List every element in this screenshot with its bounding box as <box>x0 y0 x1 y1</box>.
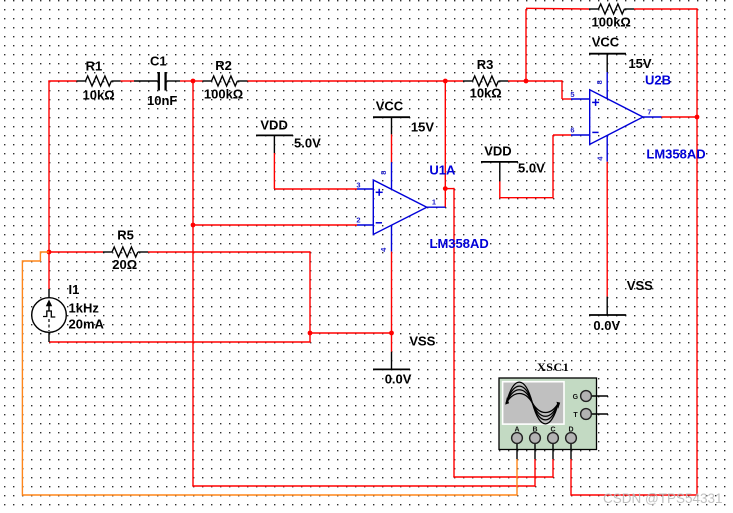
current source I1 <box>32 289 67 342</box>
label XSC1 <box>537 360 569 374</box>
svg-text:15V: 15V <box>411 120 434 135</box>
svg-text:5.0V: 5.0V <box>294 136 321 151</box>
svg-text:1: 1 <box>432 197 436 206</box>
scope terminal label B <box>532 426 537 433</box>
pin number 4 (U2B) <box>596 156 605 161</box>
pin number 1 (U1A) <box>432 197 436 206</box>
svg-text:10kΩ: 10kΩ <box>470 86 502 101</box>
wire I1 bottom to loop <box>49 341 311 343</box>
svg-text:0.0V: 0.0V <box>385 371 412 386</box>
node junction C1/R2 <box>191 79 196 84</box>
wire to U1A pin2 <box>193 224 357 226</box>
resistor R1 <box>77 76 121 86</box>
svg-text:T: T <box>573 412 578 419</box>
wire top-left to R1 <box>48 80 76 82</box>
svg-text:1kHz: 1kHz <box>69 301 100 316</box>
svg-text:5.0V: 5.0V <box>518 160 545 175</box>
svg-text:8: 8 <box>379 171 388 175</box>
value 0.0V (U2B VSS) <box>593 318 620 333</box>
wire R2 to R3 main rail <box>248 80 464 82</box>
svg-text:15V: 15V <box>628 56 651 71</box>
scope terminal label T <box>573 412 578 419</box>
label R5 <box>117 228 134 243</box>
label U2B <box>645 73 671 88</box>
wire VCC to U1A pin8 <box>391 134 393 162</box>
svg-text:7: 7 <box>647 107 651 116</box>
svg-text:100kΩ: 100kΩ <box>592 14 631 29</box>
label LM358AD (U2B) <box>646 146 705 161</box>
svg-text:VCC: VCC <box>376 98 404 113</box>
wire feedback up left <box>525 9 527 81</box>
svg-text:D: D <box>568 426 573 433</box>
wire branch to R5 node <box>310 332 392 334</box>
node junction U1A output rail <box>443 79 448 84</box>
svg-text:VCC: VCC <box>592 34 620 49</box>
wire bottom to scope B <box>192 459 535 487</box>
label VDD (U2B) <box>484 144 511 159</box>
node junction U1A inverting input <box>191 223 196 228</box>
wire feedback down to U2B output <box>696 8 698 117</box>
node junction U1A output branch <box>443 186 448 191</box>
scope connector G <box>581 391 608 402</box>
pin number 7 (U2B) <box>647 107 651 116</box>
svg-text:R1: R1 <box>86 59 103 74</box>
node junction R5 left <box>47 250 52 255</box>
scope connector A <box>512 433 523 459</box>
wire R1 to C1 <box>121 80 135 82</box>
watermark CSDN <box>603 491 723 506</box>
wire U2B output to rail <box>662 116 698 118</box>
svg-text:20Ω: 20Ω <box>112 257 137 272</box>
resistor R5 <box>103 247 148 257</box>
value 5.0V (U2B VDD) <box>518 160 545 175</box>
value 20Ω <box>112 257 137 272</box>
label R3 <box>477 57 494 72</box>
ground VSS (U2B) <box>589 297 626 315</box>
op-amp U1A <box>357 162 445 251</box>
svg-text:LM358AD: LM358AD <box>646 146 705 161</box>
value 10nF <box>147 93 177 108</box>
wire VDD to U2B pin6 <box>499 135 571 198</box>
svg-text:LM358AD: LM358AD <box>430 236 489 251</box>
value 20mA <box>69 317 105 332</box>
label VDD (U1A) <box>260 117 287 132</box>
scope terminal label G <box>573 394 579 401</box>
svg-text:R3: R3 <box>477 57 494 72</box>
svg-text:U2B: U2B <box>645 73 671 88</box>
wire U2B pin4 to VSS <box>606 162 608 297</box>
wire orange probe A from R5 node <box>22 252 517 495</box>
svg-text:R2: R2 <box>215 58 232 73</box>
wire feedback top left segment <box>526 7 589 10</box>
label VCC (U1A) <box>376 98 404 113</box>
value 10kΩ (R3) <box>470 86 502 101</box>
label U1A <box>429 162 456 177</box>
svg-text:2: 2 <box>356 216 360 225</box>
svg-text:10nF: 10nF <box>147 93 177 108</box>
value 15V (U1A VCC) <box>411 120 434 135</box>
value 10kΩ (R1) <box>83 87 115 102</box>
svg-text:B: B <box>532 426 537 433</box>
wire branch to scope C <box>445 188 553 478</box>
svg-text:CSDN @TPS54331: CSDN @TPS54331 <box>603 491 723 506</box>
power VCC supply (U1A) <box>373 117 410 134</box>
pin number 4 (U1A) <box>379 247 388 252</box>
label R1 <box>86 59 103 74</box>
wire R5 right to loop down <box>148 251 310 342</box>
svg-text:8: 8 <box>595 80 604 84</box>
svg-text:10kΩ: 10kΩ <box>83 87 115 102</box>
value 100kΩ (R2) <box>204 87 243 102</box>
svg-text:5: 5 <box>570 90 574 99</box>
svg-text:C: C <box>550 426 555 433</box>
scope connector T <box>581 409 608 420</box>
wire U1A pin4 to VSS <box>391 252 393 352</box>
svg-text:U1A: U1A <box>429 162 456 177</box>
wire left rail from R1 left down to I1 top <box>48 81 50 289</box>
value 0.0V (U1A VSS) <box>385 371 412 386</box>
label VCC (U2B) <box>592 34 620 49</box>
wire C1 node down left rail 2 <box>192 81 194 486</box>
oscilloscope XSC1 <box>499 378 597 450</box>
value 15V (U2B VCC) <box>628 56 651 71</box>
power VDD supply (U1A) <box>256 135 293 153</box>
label I1 <box>69 282 80 297</box>
resistor R2 <box>203 76 248 86</box>
svg-text:A: A <box>514 426 519 433</box>
wire VDD to U1A pin3 <box>274 153 357 189</box>
node junction pin4/VSS branch <box>389 331 394 336</box>
resistor R4 100kΩ feedback <box>589 4 634 14</box>
node junction feedback/R3 <box>524 79 529 84</box>
node junction U2B output <box>695 115 700 120</box>
label VSS (U2B) <box>627 278 653 293</box>
svg-text:VSS: VSS <box>627 278 653 293</box>
svg-text:100kΩ: 100kΩ <box>204 87 243 102</box>
wire R3 to corner and U2B pin5 <box>508 80 571 99</box>
pin number 8 (U2B) <box>595 80 604 84</box>
wire C1 to junction <box>180 80 193 82</box>
svg-text:R5: R5 <box>117 228 134 243</box>
power VDD supply (U2B) <box>481 162 518 182</box>
svg-text:20mA: 20mA <box>69 317 105 332</box>
capacitor C1 <box>134 72 180 91</box>
wire U1A output up to rail <box>444 81 446 207</box>
svg-text:G: G <box>573 394 579 401</box>
svg-text:VDD: VDD <box>484 144 511 159</box>
wire bottom to scope D <box>571 459 698 496</box>
wire junction to R2 <box>193 80 203 82</box>
scope connector C <box>548 433 559 459</box>
label R2 <box>215 58 232 73</box>
resistor R3 <box>463 76 508 86</box>
svg-text:0.0V: 0.0V <box>593 318 620 333</box>
scope terminal label C <box>550 426 555 433</box>
label LM358AD (U1A) <box>430 236 489 251</box>
svg-text:C1: C1 <box>150 54 167 69</box>
scope connector D <box>566 433 577 459</box>
scope terminal label A <box>514 426 519 433</box>
pin number 6 (U2B) <box>570 125 574 134</box>
pin number 3 (U1A) <box>356 180 360 189</box>
svg-text:6: 6 <box>570 125 574 134</box>
pin number 8 (U1A) <box>379 171 388 175</box>
ground VSS (U1A) <box>373 352 410 370</box>
value 100kΩ (feedback) <box>592 14 631 29</box>
svg-text:I1: I1 <box>69 282 80 297</box>
value 1kHz <box>69 301 100 316</box>
label VSS (U1A) <box>409 333 435 348</box>
svg-text:3: 3 <box>356 180 360 189</box>
pin number 2 (U1A) <box>356 216 360 225</box>
svg-text:VSS: VSS <box>409 333 435 348</box>
node junction R5 return <box>308 331 313 336</box>
svg-text:XSC1: XSC1 <box>537 360 569 374</box>
label C1 <box>150 54 167 69</box>
wire U2B output down right side <box>696 117 698 495</box>
scope connector B <box>530 433 541 459</box>
power VCC supply (U2B) <box>589 54 626 72</box>
svg-text:VDD: VDD <box>260 117 287 132</box>
wire feedback top right segment <box>634 8 697 10</box>
op-amp U2B <box>571 72 662 162</box>
pin number 5 (U2B) <box>570 90 574 99</box>
value 5.0V (U1A VDD) <box>294 136 321 151</box>
scope terminal label D <box>568 426 573 433</box>
wire R5 left to rail <box>49 251 103 253</box>
